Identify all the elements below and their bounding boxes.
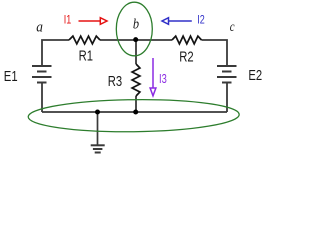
wire R2 to node c corner down to E2 [202,40,228,66]
resistor R1 [69,36,100,44]
current arrow I2 [162,18,192,25]
battery E2 [217,66,237,83]
wire E2 bottom to bottom rail [226,83,228,112]
wire top left: node a corner to R1 [42,40,69,66]
svg-text:c: c [230,20,235,35]
junction dot ground [95,110,100,115]
svg-text:b: b [133,17,140,33]
ground [91,112,105,153]
battery E1 [32,66,52,83]
svg-text:a: a [36,20,43,36]
junction dot R3 bottom [133,110,138,115]
wire R1 to node b [100,39,136,41]
svg-text:I1: I1 [64,13,72,27]
svg-text:R1: R1 [79,48,93,65]
resistor R2 [172,36,202,44]
svg-text:I3: I3 [159,71,167,86]
node b junction dot [133,37,138,42]
wire node b to R2 [136,39,172,41]
svg-text:E2: E2 [248,67,262,84]
green ellipse around bottom rail [28,99,239,133]
current arrow I1 [79,18,108,25]
wire E1 bottom to bottom rail [41,83,43,112]
wire node b down to R3 [135,40,137,64]
svg-text:E1: E1 [4,68,18,85]
svg-text:R2: R2 [179,49,193,66]
svg-text:I2: I2 [197,12,205,26]
current arrow I3 [150,58,156,96]
svg-text:R3: R3 [108,73,122,90]
wire R3 to bottom rail [135,96,137,112]
green ellipse around node b [116,2,152,56]
wire bottom rail [42,111,227,113]
resistor R3 [132,64,140,96]
